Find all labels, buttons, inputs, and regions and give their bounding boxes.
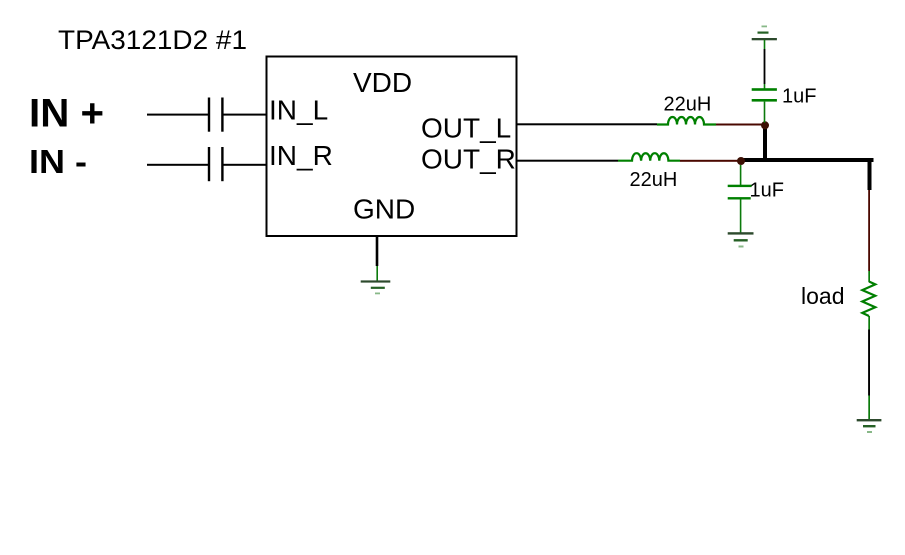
svg-text:IN +: IN + [29, 92, 104, 136]
svg-text:GND: GND [353, 194, 415, 225]
svg-text:1uF: 1uF [750, 180, 784, 202]
svg-text:VDD: VDD [353, 67, 412, 98]
svg-text:OUT_R: OUT_R [421, 144, 516, 175]
svg-text:22uH: 22uH [630, 169, 678, 191]
svg-text:load: load [801, 283, 844, 309]
svg-text:1uF: 1uF [782, 86, 816, 108]
svg-text:TPA3121D2 #1: TPA3121D2 #1 [58, 25, 247, 55]
svg-text:IN -: IN - [29, 143, 87, 180]
svg-text:22uH: 22uH [664, 94, 712, 116]
svg-text:IN_R: IN_R [269, 140, 333, 171]
svg-text:OUT_L: OUT_L [421, 113, 511, 144]
svg-text:IN_L: IN_L [269, 95, 328, 126]
